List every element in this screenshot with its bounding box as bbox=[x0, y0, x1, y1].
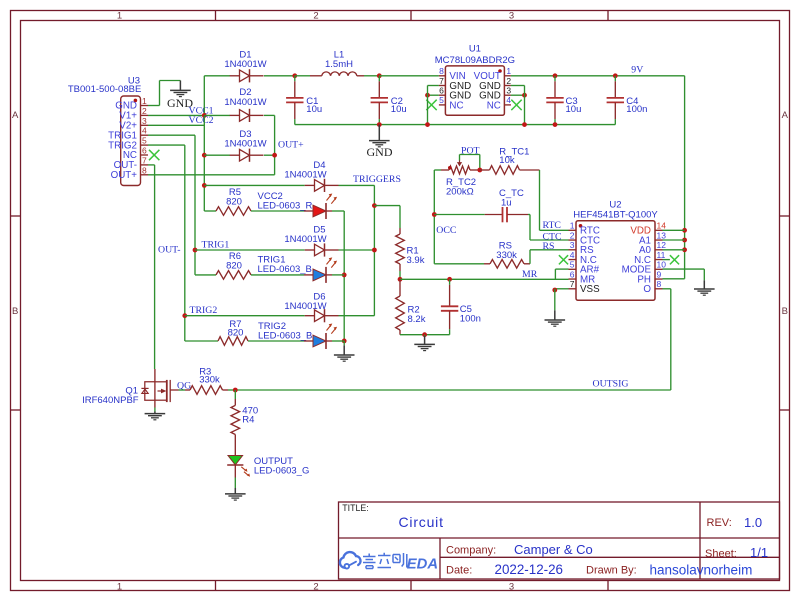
power flag GND (under C2) bbox=[367, 125, 393, 160]
svg-text:1.0: 1.0 bbox=[744, 515, 762, 530]
wire bbox=[554, 289, 556, 311]
no-connect flag bbox=[670, 255, 679, 264]
svg-text:VCC2: VCC2 bbox=[189, 115, 214, 126]
wire bbox=[339, 249, 375, 251]
wire bbox=[434, 263, 484, 265]
svg-text:7: 7 bbox=[439, 76, 444, 86]
wire bbox=[524, 86, 526, 125]
svg-text:O: O bbox=[643, 284, 651, 295]
svg-text:Date:: Date: bbox=[446, 565, 472, 577]
resistor R4 label bbox=[242, 405, 258, 425]
svg-text:2: 2 bbox=[506, 76, 511, 86]
wire bbox=[373, 185, 375, 315]
wire bbox=[663, 229, 685, 231]
ground (VSS) bbox=[545, 310, 566, 326]
capacitor C5 100n bbox=[441, 279, 458, 334]
svg-text:LED-0603_G: LED-0603_G bbox=[254, 466, 309, 477]
wire bbox=[295, 75, 310, 77]
wire bbox=[399, 206, 401, 228]
wire bbox=[184, 145, 186, 341]
ground symbol bbox=[369, 125, 390, 147]
LED OUTPUT LED-0603_G (green) bbox=[227, 448, 250, 478]
svg-text:OUT-: OUT- bbox=[158, 245, 181, 256]
resistor RS labels bbox=[496, 241, 517, 261]
wire bbox=[234, 478, 236, 489]
wire (GND rail under filter) bbox=[295, 124, 616, 126]
svg-text:LED-0603_B: LED-0603_B bbox=[258, 330, 312, 341]
junction GND rail right bbox=[522, 122, 527, 127]
junction C3 top bbox=[553, 73, 558, 78]
svg-text:3: 3 bbox=[509, 581, 514, 592]
resistor R4 470 bbox=[231, 390, 240, 448]
wire bbox=[248, 340, 304, 342]
junction U1 GND right bbox=[522, 93, 527, 98]
capacitor C5 label bbox=[460, 304, 481, 325]
wire bbox=[332, 274, 344, 276]
junction TRIGGERS/R1 bbox=[372, 203, 377, 208]
junction MR/C5 bbox=[447, 277, 452, 282]
svg-text:NC: NC bbox=[449, 100, 463, 111]
wire bbox=[374, 205, 400, 207]
no-connect flag bbox=[149, 150, 159, 160]
svg-text:4: 4 bbox=[570, 250, 575, 260]
no-connect flag bbox=[511, 100, 521, 110]
diode D5 1N4001W bbox=[305, 243, 339, 256]
resistor R7 820 bbox=[218, 337, 248, 346]
svg-text:1/1: 1/1 bbox=[750, 545, 768, 560]
svg-text:OUT+: OUT+ bbox=[111, 170, 138, 181]
svg-text:100n: 100n bbox=[626, 104, 647, 115]
wire bbox=[663, 249, 685, 251]
diode D4 label bbox=[284, 160, 326, 181]
wire bbox=[529, 250, 531, 264]
svg-text:2: 2 bbox=[570, 230, 575, 240]
svg-text:2: 2 bbox=[313, 10, 318, 21]
svg-text:8: 8 bbox=[142, 165, 147, 175]
LED D4 VCC2 LED-0603_R (red) bbox=[304, 194, 337, 220]
junction 9V/VDD bbox=[682, 228, 687, 233]
wire bbox=[364, 75, 379, 77]
svg-text:RTC: RTC bbox=[543, 220, 561, 231]
resistor R_TC1 10k bbox=[480, 166, 540, 175]
svg-text:9V: 9V bbox=[631, 64, 643, 75]
svg-text:10: 10 bbox=[657, 260, 667, 270]
wire bbox=[663, 239, 685, 241]
junction TRIG2 bbox=[182, 313, 187, 318]
diode D4 1N4001W bbox=[305, 179, 339, 192]
capacitor C_TC labels bbox=[499, 188, 524, 208]
diode D3 1N4001W bbox=[230, 149, 264, 162]
wire bbox=[148, 124, 204, 126]
LED D6 TRIG2 LED-0603_B (blue) bbox=[304, 324, 337, 350]
wire bbox=[185, 315, 305, 317]
wire bbox=[427, 86, 429, 125]
svg-text:3: 3 bbox=[506, 86, 511, 96]
diode D3 label bbox=[224, 129, 266, 150]
svg-text:1N4001W: 1N4001W bbox=[284, 301, 326, 312]
resistor R5 820 bbox=[216, 207, 251, 216]
junction U1 GND left bbox=[425, 93, 430, 98]
svg-text:OUTSIG: OUTSIG bbox=[593, 378, 629, 389]
svg-text:R4: R4 bbox=[242, 415, 254, 426]
svg-text:8: 8 bbox=[439, 66, 444, 76]
wire bbox=[428, 94, 439, 96]
wire bbox=[663, 278, 685, 280]
wire bbox=[159, 81, 161, 106]
ground (Q1 source) bbox=[145, 412, 166, 420]
svg-text:1: 1 bbox=[117, 581, 122, 592]
svg-text:10u: 10u bbox=[391, 104, 407, 115]
wire bbox=[511, 94, 525, 96]
svg-text:6: 6 bbox=[570, 269, 575, 279]
wire bbox=[424, 335, 426, 336]
svg-text:13: 13 bbox=[657, 230, 667, 240]
wire bbox=[663, 268, 705, 270]
wire bbox=[154, 165, 156, 369]
wire bbox=[684, 76, 686, 279]
LED D6 labels bbox=[258, 321, 312, 341]
resistor R7 label bbox=[228, 319, 244, 339]
svg-text:6: 6 bbox=[142, 146, 147, 156]
junction VCC2/D4 bbox=[202, 183, 207, 188]
connector U3 TB001-500-08BE bbox=[68, 75, 148, 185]
svg-text:4: 4 bbox=[506, 95, 511, 105]
svg-text:1N4001W: 1N4001W bbox=[284, 170, 326, 181]
resistor R1 label bbox=[407, 245, 425, 265]
junction OCC/C_TC bbox=[432, 212, 437, 217]
wire bbox=[433, 170, 435, 264]
wire bbox=[434, 214, 484, 216]
svg-text:2: 2 bbox=[313, 581, 318, 592]
svg-text:1.5mH: 1.5mH bbox=[325, 59, 353, 70]
junction LED rail D5 bbox=[342, 273, 347, 278]
LED D5 TRIG1 LED-0603_B (blue) bbox=[304, 257, 337, 283]
svg-text:12: 12 bbox=[657, 240, 667, 250]
svg-text:TRIG1: TRIG1 bbox=[202, 239, 230, 250]
wire bbox=[663, 288, 671, 290]
junction LED rail D6/GND bbox=[342, 339, 347, 344]
wire bbox=[511, 75, 685, 77]
svg-text:5: 5 bbox=[439, 95, 444, 105]
junction pot/R_TC1 bbox=[477, 168, 482, 173]
svg-text:1u: 1u bbox=[501, 197, 512, 208]
svg-text:3: 3 bbox=[570, 240, 575, 250]
svg-text:LED-0603_B: LED-0603_B bbox=[258, 264, 312, 275]
wire bbox=[148, 105, 160, 107]
junction VSS bbox=[552, 288, 557, 293]
wire bbox=[235, 389, 671, 391]
wire bbox=[399, 271, 401, 279]
svg-text:820: 820 bbox=[228, 328, 244, 339]
svg-text:Company:: Company: bbox=[446, 545, 496, 557]
wire bbox=[264, 75, 295, 77]
ground (LED rail) bbox=[334, 345, 355, 361]
wire bbox=[460, 154, 480, 156]
timer IC U2 HEF4541BT-Q100Y bbox=[569, 199, 667, 300]
wire bbox=[663, 259, 670, 261]
inductor L1 1.5mH bbox=[310, 72, 364, 76]
svg-text:TRIGGERS: TRIGGERS bbox=[353, 174, 401, 185]
wire bbox=[204, 210, 216, 212]
wire bbox=[148, 174, 275, 176]
logo JLCEDA bbox=[340, 552, 438, 572]
wire bbox=[555, 268, 568, 270]
wire bbox=[185, 340, 218, 342]
ground symbol bbox=[170, 81, 191, 97]
svg-text:U1: U1 bbox=[469, 44, 481, 55]
diode D1 label bbox=[224, 50, 266, 71]
junction C3 bottom bbox=[553, 122, 558, 127]
svg-text:TITLE:: TITLE: bbox=[342, 503, 368, 513]
wire bbox=[459, 155, 461, 161]
title block bbox=[339, 502, 780, 579]
wire bbox=[204, 154, 230, 156]
svg-text:6: 6 bbox=[439, 86, 444, 96]
capacitor C4 label bbox=[626, 96, 647, 115]
svg-text:B: B bbox=[782, 306, 788, 317]
capacitor C1 10u bbox=[286, 76, 303, 125]
capacitor C3 label bbox=[566, 96, 582, 115]
LED OUTPUT labels bbox=[254, 456, 309, 477]
wire bbox=[400, 334, 450, 336]
svg-text:4: 4 bbox=[142, 126, 147, 136]
svg-text:OCC: OCC bbox=[436, 225, 456, 236]
wire bbox=[264, 114, 275, 116]
wire bbox=[204, 184, 304, 186]
svg-text:REV:: REV: bbox=[707, 517, 732, 529]
diode D5 label bbox=[284, 224, 326, 245]
wire bbox=[148, 144, 185, 146]
wire bbox=[274, 115, 276, 174]
svg-text:7: 7 bbox=[142, 155, 147, 165]
svg-text:TRIG2: TRIG2 bbox=[190, 305, 218, 316]
svg-text:MR: MR bbox=[522, 269, 538, 280]
diode D1 1N4001W bbox=[230, 69, 264, 82]
svg-text:200kΩ: 200kΩ bbox=[446, 187, 474, 198]
svg-text:1N4001W: 1N4001W bbox=[224, 97, 266, 108]
resistor R3 label bbox=[199, 366, 220, 385]
svg-text:Camper & Co: Camper & Co bbox=[514, 542, 593, 557]
wire bbox=[251, 274, 304, 276]
wire bbox=[540, 229, 569, 231]
svg-text:GND: GND bbox=[367, 145, 393, 159]
svg-text:A: A bbox=[12, 110, 19, 121]
svg-text:VSS: VSS bbox=[580, 284, 600, 295]
svg-text:100n: 100n bbox=[460, 314, 481, 325]
svg-text:1: 1 bbox=[506, 66, 511, 76]
resistor R5 label bbox=[226, 187, 242, 208]
ground (output LED) bbox=[225, 488, 246, 500]
wire bbox=[343, 211, 345, 341]
wire bbox=[228, 389, 235, 391]
svg-text:TB001-500-08BE: TB001-500-08BE bbox=[68, 84, 141, 95]
wire bbox=[195, 249, 305, 251]
ground (R2/C5) bbox=[414, 336, 435, 351]
diode D6 label bbox=[284, 291, 326, 312]
potentiometer R_TC2 200k bbox=[434, 161, 480, 175]
junction TRIG1 bbox=[193, 248, 198, 253]
capacitor C2 10u bbox=[371, 76, 388, 125]
wire bbox=[539, 170, 541, 230]
wire bbox=[148, 114, 204, 116]
wire bbox=[400, 278, 569, 280]
svg-text:14: 14 bbox=[657, 221, 667, 231]
svg-text:3: 3 bbox=[509, 10, 514, 21]
wire bbox=[339, 184, 375, 186]
junction 9V/A0 bbox=[682, 247, 687, 252]
junction 9V/A1 bbox=[682, 238, 687, 243]
svg-text:7: 7 bbox=[570, 279, 575, 289]
svg-text:A: A bbox=[782, 110, 789, 121]
svg-text:MC78L09ABDR2G: MC78L09ABDR2G bbox=[435, 55, 515, 66]
resistor R6 820 bbox=[216, 271, 251, 280]
transistor Q1 IRF640NPBF bbox=[82, 369, 178, 412]
wire bbox=[204, 114, 230, 116]
wire bbox=[194, 135, 196, 275]
junction VCC2/D3 bbox=[202, 153, 207, 158]
svg-text:11: 11 bbox=[657, 250, 666, 260]
svg-text:2: 2 bbox=[142, 106, 147, 116]
wire bbox=[554, 269, 556, 279]
wire bbox=[148, 164, 155, 166]
ground (MODE) bbox=[694, 280, 715, 295]
svg-text:OUT+: OUT+ bbox=[278, 140, 304, 151]
svg-text:HEF4541BT-Q100Y: HEF4541BT-Q100Y bbox=[573, 209, 658, 220]
diode D6 1N4001W bbox=[305, 309, 339, 322]
svg-text:1N4001W: 1N4001W bbox=[224, 139, 266, 150]
resistor R1 3.9k bbox=[396, 228, 405, 271]
svg-text:IRF640NPBF: IRF640NPBF bbox=[82, 395, 139, 406]
svg-text:EDA: EDA bbox=[407, 556, 438, 572]
junction VCC1 bbox=[202, 113, 207, 118]
wire bbox=[234, 390, 236, 399]
junction C4 top bbox=[613, 73, 618, 78]
wire bbox=[339, 315, 375, 317]
wire bbox=[203, 76, 205, 116]
wire bbox=[529, 215, 531, 241]
svg-text:330k: 330k bbox=[199, 374, 220, 385]
svg-text:1: 1 bbox=[570, 221, 575, 231]
wire bbox=[530, 239, 569, 241]
svg-text:10u: 10u bbox=[306, 104, 322, 115]
diode D2 1N4001W bbox=[230, 109, 264, 122]
wire bbox=[160, 80, 181, 82]
resistor R_TC1 labels bbox=[499, 146, 529, 166]
wire bbox=[670, 289, 672, 390]
junction MR/R1/R2 bbox=[398, 277, 403, 282]
svg-text:1: 1 bbox=[142, 96, 147, 106]
wire bbox=[332, 340, 344, 342]
no-connect flag bbox=[559, 255, 568, 264]
wire bbox=[428, 85, 439, 87]
capacitor C_TC 1u bbox=[434, 207, 528, 222]
junction R2/C5 GND bbox=[422, 332, 427, 337]
svg-text:5: 5 bbox=[570, 260, 575, 270]
wire bbox=[379, 75, 439, 77]
power flag GND (top left) bbox=[167, 81, 193, 111]
wire bbox=[434, 169, 441, 171]
voltage regulator U1 MC78L09ABDR2G bbox=[435, 44, 515, 116]
capacitor C3 10u bbox=[546, 76, 563, 125]
junction C2 top bbox=[377, 73, 382, 78]
resistor R2 8.2k bbox=[396, 279, 405, 334]
wire bbox=[204, 75, 230, 77]
wire bbox=[343, 341, 345, 345]
capacitor C2 label bbox=[391, 96, 407, 115]
LED D5 labels bbox=[258, 255, 312, 276]
wire bbox=[251, 210, 304, 212]
wire bbox=[479, 155, 481, 171]
junction OUT+ bbox=[272, 153, 277, 158]
svg-text:1N4001W: 1N4001W bbox=[284, 234, 326, 245]
svg-text:3: 3 bbox=[142, 116, 147, 126]
junction GND rail/C2 bbox=[377, 122, 382, 127]
wire bbox=[703, 269, 705, 280]
svg-text:Circuit: Circuit bbox=[399, 514, 444, 530]
svg-text:9: 9 bbox=[657, 269, 662, 279]
junction C1 top bbox=[292, 73, 297, 78]
resistor R3 330k bbox=[185, 386, 228, 395]
svg-text:330k: 330k bbox=[496, 250, 517, 261]
svg-text:NC: NC bbox=[487, 100, 501, 111]
potentiometer R_TC2 labels bbox=[446, 177, 476, 198]
svg-text:1: 1 bbox=[117, 10, 122, 21]
svg-text:B: B bbox=[12, 306, 18, 317]
capacitor C1 label bbox=[306, 96, 322, 115]
junction GND rail bbox=[425, 122, 430, 127]
resistor R2 label bbox=[408, 305, 426, 326]
junction QG/R4/OUTSIG bbox=[233, 388, 238, 393]
junction TRIGGERS/D5 bbox=[372, 248, 377, 253]
svg-text:1N4001W: 1N4001W bbox=[224, 59, 266, 70]
svg-text:3.9k: 3.9k bbox=[407, 255, 425, 266]
svg-text:8: 8 bbox=[657, 279, 662, 289]
wire bbox=[148, 134, 195, 136]
svg-text:8.2k: 8.2k bbox=[408, 314, 426, 325]
svg-text:10u: 10u bbox=[566, 104, 582, 115]
wire bbox=[332, 210, 344, 212]
svg-text:LED-0603_R: LED-0603_R bbox=[258, 200, 313, 211]
no-connect flag bbox=[426, 100, 436, 110]
resistor R6 label bbox=[226, 251, 242, 272]
inductor L1 label bbox=[325, 49, 353, 70]
diode D2 label bbox=[224, 87, 266, 108]
wire bbox=[528, 214, 530, 216]
wire bbox=[264, 154, 275, 156]
svg-text:hansolavnorheim: hansolavnorheim bbox=[650, 562, 753, 577]
wire bbox=[195, 274, 216, 276]
svg-text:2022-12-26: 2022-12-26 bbox=[495, 562, 564, 577]
wire bbox=[555, 288, 569, 290]
svg-text:10k: 10k bbox=[499, 155, 515, 166]
svg-text:Drawn By:: Drawn By: bbox=[586, 565, 637, 577]
wire bbox=[203, 115, 205, 211]
svg-text:Sheet:: Sheet: bbox=[705, 548, 737, 560]
svg-text:5: 5 bbox=[142, 136, 147, 146]
capacitor C4 100n bbox=[607, 76, 624, 125]
wire bbox=[530, 249, 569, 251]
resistor RS 330k bbox=[434, 260, 530, 269]
wire bbox=[511, 85, 525, 87]
wire bbox=[179, 389, 186, 391]
LED D4 labels bbox=[258, 191, 313, 212]
svg-text:RS: RS bbox=[543, 241, 555, 252]
